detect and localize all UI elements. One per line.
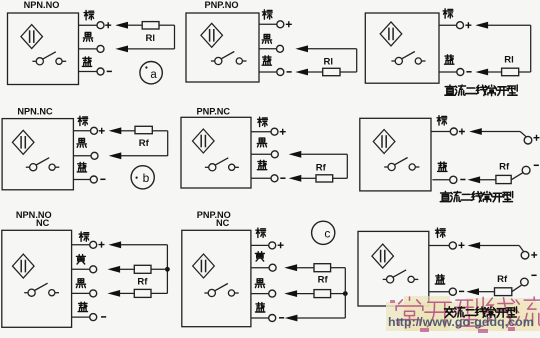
terminal black output: [97, 45, 104, 52]
resistor Rl load: [142, 22, 159, 29]
arrow into blue terminal: [286, 315, 297, 321]
svg-text:PNP.NO: PNP.NO: [204, 0, 238, 10]
label brown wire zong: [436, 228, 446, 237]
wire U4 brown lead: [73, 130, 90, 132]
svg-text:NPN.NO: NPN.NO: [24, 0, 60, 10]
wire U3 blue lead: [439, 71, 457, 73]
wire Rl to blue arrow: [488, 71, 502, 73]
wire black arrow to resistor Rf lower: [120, 292, 135, 294]
wire corner to black arrow: [128, 48, 175, 50]
svg-text:Rf: Rf: [497, 274, 508, 285]
terminal black output: [269, 290, 276, 297]
sensor U2 diamond symbol: [201, 23, 223, 47]
terminal blue -: [449, 288, 456, 295]
switch S1 normally-open contact: [32, 52, 66, 65]
wire U2 blue lead: [259, 71, 277, 73]
wire U6 brown lead: [431, 131, 450, 133]
label brown wire zong: [78, 116, 88, 125]
label blue wire lan: [82, 57, 91, 66]
wire Rf lower to vertical bus: [331, 293, 346, 295]
wire right vertical bus: [344, 268, 346, 318]
polarity + sign: [278, 242, 284, 248]
polarity + sign: [459, 242, 465, 248]
wire yellow arrow to resistor Rf upper: [120, 268, 135, 270]
arrow into brown terminal: [110, 128, 121, 134]
wire arrow to right corner: [488, 24, 531, 26]
label blue wire lan: [435, 275, 444, 284]
terminal blue -: [269, 315, 276, 322]
svg-text:b: b: [143, 171, 150, 185]
arrow into brown terminal: [117, 22, 128, 28]
polarity - sign: [460, 179, 465, 181]
polarity + sign: [459, 129, 465, 135]
label brown wire zong: [262, 10, 272, 19]
terminal blue -: [271, 175, 278, 182]
resistor Rf lower: [134, 289, 151, 297]
wire Rl to corner: [159, 24, 175, 26]
supply + sign: [534, 135, 540, 141]
switch S2 normally-open contact: [211, 52, 247, 65]
wire U4 black lead: [73, 155, 91, 157]
sensor U9 diamond symbol: [372, 244, 394, 268]
terminal brown +: [269, 242, 276, 249]
wire Rf to corner: [152, 130, 167, 132]
label yellow wire huang: [76, 255, 85, 264]
switch S5 normally-closed contact: [205, 158, 239, 171]
sensor U5 body: [181, 117, 251, 188]
polarity - sign: [101, 316, 106, 318]
wire black arrow to resistor Rf lower: [297, 293, 314, 295]
wire U9 brown lead: [429, 245, 449, 247]
wire Rf lower to vertical bus: [151, 292, 167, 294]
wire Rf to blue arrow: [301, 177, 316, 179]
label blue wire lan: [78, 302, 87, 311]
terminal blue -: [90, 176, 97, 183]
arrow into black terminal: [117, 46, 128, 52]
node marker b circled: [131, 166, 154, 189]
sensor U7 body: [2, 230, 72, 327]
wire U1 brown lead: [79, 24, 98, 26]
wire U9 blue lead: [429, 291, 449, 293]
label blue wire lan: [438, 162, 447, 171]
arrow into brown terminal: [469, 243, 480, 249]
terminal brown +: [97, 22, 104, 29]
resistor Rf load: [495, 288, 512, 296]
wire U7 blue lead: [72, 316, 90, 318]
wire U7 yellow lead: [72, 268, 90, 270]
wire corner to resistor Rf: [333, 177, 348, 179]
svg-text:NC: NC: [216, 218, 230, 228]
sensor U8 body: [182, 230, 251, 326]
sensor U7 diamond symbol: [13, 254, 35, 278]
sensor U4 diamond symbol: [12, 130, 34, 154]
switch S8 contact: [204, 284, 238, 297]
polarity - sign: [287, 71, 292, 73]
wire Rf diagonal to supply -: [511, 173, 523, 180]
supply + sign: [531, 252, 537, 258]
wire U7 black lead: [72, 292, 90, 294]
label brown wire zong: [258, 117, 268, 126]
polarity + sign: [280, 129, 286, 135]
svg-text:Rf: Rf: [137, 277, 148, 288]
wire Rl to blue arrow: [308, 71, 323, 73]
wire Rf upper to vertical bus: [331, 267, 346, 269]
wire U6 blue lead: [432, 179, 449, 181]
resistor Rf load: [316, 175, 333, 182]
sensor U2 body: [186, 13, 259, 82]
wire yellow arrow to resistor Rf upper: [297, 267, 314, 269]
wire U8 brown lead: [251, 244, 269, 246]
polarity + sign: [465, 22, 471, 28]
label brown wire zong: [84, 11, 94, 20]
wire U5 blue lead: [251, 177, 271, 179]
watermark magenta speckles: [390, 300, 515, 333]
arrow into blue terminal: [297, 69, 308, 75]
resistor Rf load: [135, 126, 152, 133]
sensor U4 body: [2, 119, 73, 190]
terminal blue -: [450, 176, 457, 183]
resistor Rf upper: [134, 265, 151, 273]
arrow into brown terminal: [477, 22, 488, 28]
arrow into black terminal: [290, 151, 301, 157]
label brown wire zong: [443, 9, 453, 18]
arrow into brown terminal: [470, 129, 481, 135]
wire Rf diagonal to supply -: [512, 285, 522, 292]
svg-text:a: a: [150, 69, 157, 81]
resistor Rf load: [496, 175, 511, 183]
supply + terminal: [524, 136, 532, 144]
terminal blue -: [277, 69, 284, 76]
terminal brown +: [271, 128, 278, 135]
sensor U1 diamond symbol: [21, 25, 43, 49]
terminal blue -: [90, 314, 97, 321]
svg-text:c: c: [324, 227, 330, 241]
wire brown arrow to right vertical: [121, 244, 168, 246]
switch S6 normally-open contact: [384, 158, 419, 171]
terminal blue -: [457, 69, 464, 76]
terminal black output: [90, 290, 97, 297]
svg-text:Rf: Rf: [316, 162, 327, 173]
svg-text:Rf: Rf: [499, 161, 510, 172]
wire right vertical: [174, 25, 176, 49]
wire blue arrow to vertical bus: [297, 317, 345, 319]
terminal brown +: [457, 22, 464, 29]
label blue wire lan: [77, 163, 86, 172]
node marker c circled: [312, 221, 335, 244]
terminal blue -: [97, 68, 104, 75]
arrow into yellow terminal: [286, 265, 297, 271]
arrow into black terminal: [110, 153, 121, 159]
label black wire hei: [83, 33, 92, 42]
wire diagonal to supply + terminal: [519, 246, 523, 252]
wire U8 blue lead: [251, 317, 269, 319]
sensor U9 body: [358, 231, 429, 306]
label blue wire lan: [262, 56, 271, 65]
junction dot black row: [343, 291, 348, 296]
polarity + sign: [99, 128, 105, 134]
svg-text:Rl: Rl: [504, 55, 514, 66]
arrow into black terminal: [109, 290, 120, 296]
sensor U1 body: [8, 13, 79, 85]
arrow into blue terminal: [477, 69, 488, 75]
resistor Rl load: [323, 68, 340, 75]
svg-text:NPN.NC: NPN.NC: [17, 107, 53, 117]
wire U5 black lead: [251, 153, 271, 155]
wire arrow to resistor Rl: [128, 24, 143, 26]
supply - sign: [534, 164, 539, 166]
sensor U6 diamond symbol: [373, 130, 395, 154]
label black wire hei: [76, 279, 85, 288]
svg-text:Rl: Rl: [324, 57, 334, 68]
arrow into blue terminal: [469, 177, 480, 183]
wire right vertical: [167, 131, 169, 156]
node marker a circled: [140, 61, 162, 83]
resistor Rf upper: [314, 264, 331, 272]
wire U1 black lead: [79, 48, 98, 50]
watermark outlined hanzi magenta: [396, 297, 540, 327]
label blue wire lan: [256, 303, 265, 312]
arrow into black terminal: [286, 291, 297, 297]
svg-text:http://www.go-gddq.com: http://www.go-gddq.com: [388, 315, 534, 329]
wire U2 black lead: [259, 48, 277, 50]
node b dot: [136, 177, 138, 179]
label brown wire zong: [256, 228, 266, 237]
wire arrow to supply +: [480, 245, 519, 247]
label brown wire zong: [79, 232, 89, 241]
caption DC two-wire normally-open type: [445, 85, 455, 95]
switch S4 normally-closed contact: [26, 158, 60, 171]
arrow into blue terminal: [290, 175, 301, 181]
arrow into blue terminal: [468, 289, 479, 295]
polarity - sign: [279, 317, 284, 319]
label black wire hei: [77, 139, 86, 148]
wire black arrow to corner: [301, 153, 347, 155]
wire diagonal to supply + terminal: [520, 132, 526, 137]
polarity - sign: [466, 71, 471, 73]
terminal black output: [91, 152, 98, 159]
caption AC two-wire normally-open type: [445, 307, 455, 318]
wire right vertical bus: [166, 245, 168, 294]
wire arrow to resistor Rf: [480, 179, 496, 181]
terminal yellow output: [269, 264, 276, 271]
arrow into black terminal: [297, 46, 308, 52]
wire right vertical: [356, 49, 358, 72]
junction dot yellow row: [165, 267, 170, 272]
wire corner to black arrow: [121, 155, 168, 157]
label brown wire zong: [437, 116, 447, 125]
wire black arrow to corner: [308, 48, 357, 50]
supply - terminal: [522, 166, 530, 174]
wire arrow to resistor Rf: [121, 130, 135, 132]
switch S7 contact: [24, 283, 59, 296]
svg-text:Rf: Rf: [139, 138, 150, 149]
wire U8 yellow lead: [251, 267, 269, 269]
supply - terminal: [521, 278, 529, 286]
polarity - sign: [459, 290, 464, 292]
label black wire hei: [255, 279, 264, 288]
terminal black output: [277, 45, 284, 52]
svg-text:PNP.NC: PNP.NC: [197, 106, 231, 116]
wire U1 blue lead: [79, 71, 98, 73]
sensor U3 body: [365, 13, 439, 83]
terminal brown +: [277, 21, 284, 28]
label blue wire lan: [445, 55, 454, 64]
polarity - sign: [100, 178, 105, 180]
sensor U5 diamond symbol: [193, 129, 215, 153]
wire corner to resistor Rl: [340, 71, 357, 73]
polarity - sign: [280, 177, 285, 179]
switch S3 normally-open contact: [391, 52, 425, 65]
wire U5 brown lead: [251, 131, 271, 133]
wire U2 brown lead: [259, 23, 277, 25]
label black wire hei: [257, 138, 266, 147]
polarity - sign: [107, 70, 112, 72]
arrow into yellow terminal: [109, 266, 120, 272]
polarity + sign: [286, 21, 292, 27]
switch S9 normally-open contact: [383, 270, 419, 283]
node a dot: [145, 66, 147, 68]
resistor Rl load: [502, 68, 519, 76]
sensor U3 diamond symbol: [380, 22, 402, 46]
arrow into brown terminal: [110, 242, 121, 248]
resistor Rf lower: [314, 290, 331, 298]
supply + terminal: [521, 251, 529, 259]
terminal yellow output: [90, 266, 97, 273]
supply - sign: [531, 274, 536, 276]
caption DC two-wire normally-open type 2: [440, 191, 450, 201]
watermark background band: [386, 296, 540, 331]
sensor U6 body: [360, 118, 431, 191]
svg-text:Rl: Rl: [146, 33, 156, 44]
label yellow wire huang: [255, 252, 264, 261]
terminal black output: [271, 151, 278, 158]
terminal brown +: [91, 127, 98, 134]
terminal brown +: [90, 241, 97, 248]
svg-text:Rf: Rf: [318, 274, 329, 285]
terminal brown +: [450, 128, 457, 135]
label blue wire lan: [257, 160, 266, 169]
wire U8 black lead: [251, 293, 269, 295]
polarity + sign: [99, 242, 105, 248]
wire U3 brown lead: [439, 24, 457, 26]
polarity + sign: [105, 22, 111, 28]
svg-text:NC: NC: [36, 218, 50, 228]
wire U4 blue lead: [73, 179, 90, 181]
wire arrow to supply +: [482, 131, 521, 133]
wire right vertical: [530, 25, 532, 72]
sensor U8 diamond symbol: [193, 254, 215, 278]
wire Rf upper to vertical bus: [151, 268, 167, 270]
wire corner to resistor Rl: [519, 71, 531, 73]
terminal brown +: [449, 242, 456, 249]
wire arrow to resistor Rf: [479, 291, 495, 293]
wire right vertical: [346, 154, 348, 178]
wire U7 brown lead: [72, 244, 90, 246]
label black wire hei: [262, 35, 271, 44]
